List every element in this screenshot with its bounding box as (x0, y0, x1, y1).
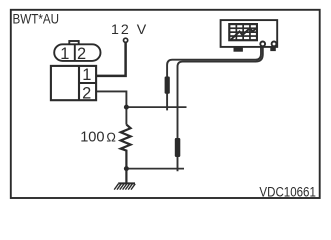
svg-text:BWT*AU: BWT*AU (13, 10, 60, 26)
svg-text:1: 1 (82, 66, 91, 84)
svg-text:VDC10661: VDC10661 (259, 183, 315, 199)
svg-text:1: 1 (60, 45, 69, 63)
svg-text:100Ω: 100Ω (80, 130, 116, 146)
svg-text:12 V: 12 V (111, 22, 148, 38)
svg-text:2: 2 (77, 45, 86, 63)
svg-text:2: 2 (82, 85, 91, 103)
